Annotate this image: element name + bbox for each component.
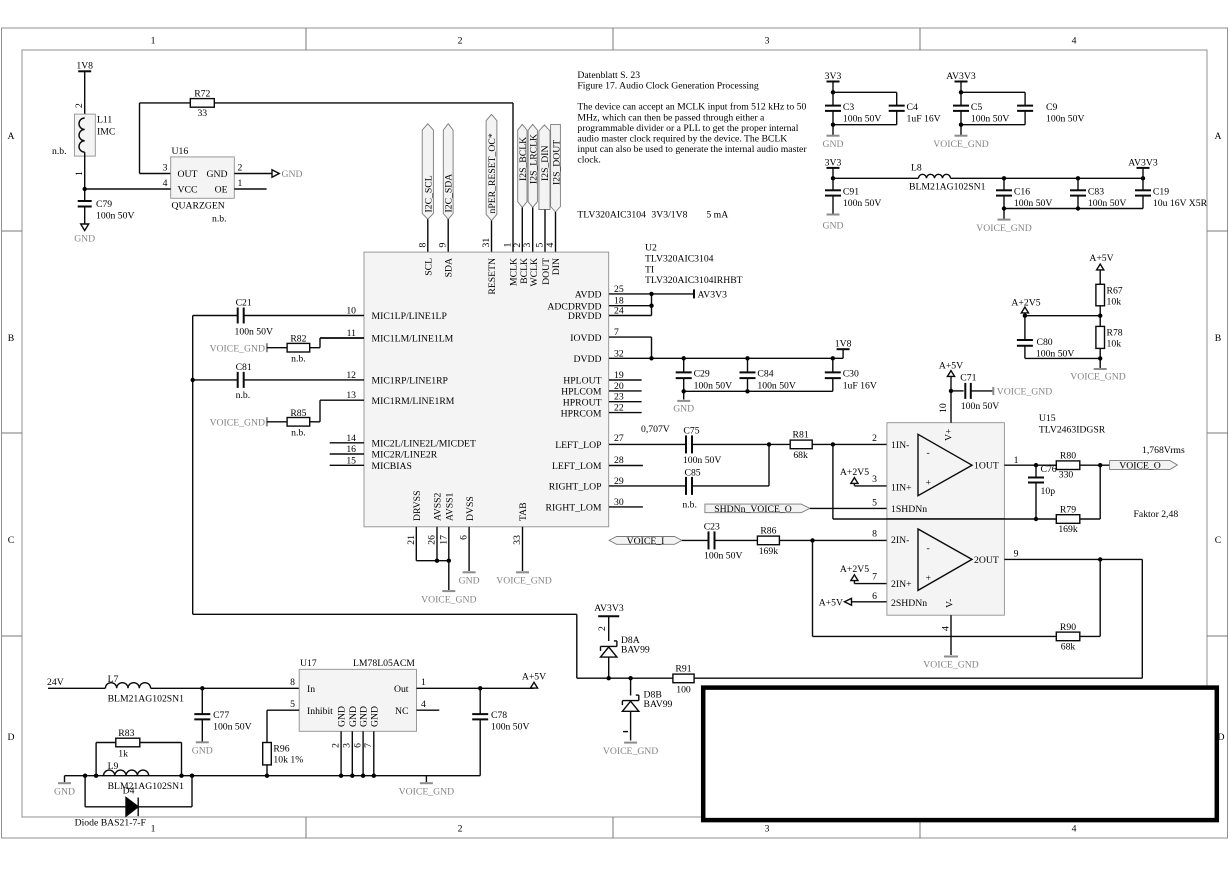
svg-text:C23: C23 [704,521,720,532]
net flag nPER_RESET_OC* [486,114,498,220]
svg-text:1V8: 1V8 [76,61,93,72]
svg-text:SHDNn_VOICE_O: SHDNn_VOICE_O [714,504,792,515]
svg-text:1k: 1k [118,749,128,760]
svg-text:1: 1 [1014,455,1019,466]
svg-text:1: 1 [151,824,156,835]
svg-text:BAV99: BAV99 [644,699,673,710]
svg-text:TAB: TAB [518,502,529,521]
wire C29 C84 C30 bottom rail [682,378,833,399]
ground VOICE_GND below D8B [603,732,658,757]
net flag I2C_SDA [443,124,454,220]
capacitor C75 100n 50V [609,426,769,466]
svg-text:169k: 169k [759,546,779,557]
net flag I2S_DIN [539,125,551,210]
wire U15A V+ pin 10 [949,389,953,423]
svg-text:17: 17 [438,535,449,545]
svg-text:100n 50V: 100n 50V [491,722,529,733]
svg-text:C: C [8,535,14,546]
svg-text:RIGHT_LOP: RIGHT_LOP [549,482,602,493]
svg-text:3V3/1V8: 3V3/1V8 [651,210,687,221]
svg-text:L9: L9 [108,761,119,772]
inductor L7 BLM21AG102SN1 [105,674,184,705]
svg-text:3: 3 [765,824,770,835]
svg-text:DVDD: DVDD [574,354,602,365]
wire 1OUT net [1004,463,1056,467]
wire I2S_DIN to U2 pin 5 [544,210,546,253]
svg-text:10p: 10p [1041,486,1056,497]
svg-text:100n 50V: 100n 50V [971,114,1009,125]
svg-text:33: 33 [512,535,523,545]
svg-text:Datenblatt S. 23: Datenblatt S. 23 [577,70,640,81]
capacitor C84 100n 50V [740,358,796,391]
svg-text:AV3V3: AV3V3 [946,71,976,82]
svg-text:TLV320AIC3104: TLV320AIC3104 [645,253,714,264]
ground GND at rail left [54,776,75,798]
wire 1V8 to L11 [84,71,86,118]
svg-text:AV3V3: AV3V3 [698,290,728,301]
svg-text:8: 8 [417,243,428,248]
U15A pin numbers [872,403,1018,508]
ground VOICE_GND at rail [399,776,454,798]
svg-text:I2C_SCL: I2C_SCL [423,175,434,212]
svg-text:GND: GND [192,746,213,757]
svg-text:C76: C76 [1041,464,1057,475]
svg-text:10k: 10k [1107,297,1122,308]
svg-text:n.b.: n.b. [52,146,67,157]
svg-text:1uF 16V: 1uF 16V [843,381,877,392]
wire MIC2 pins stubs [330,443,364,466]
svg-text:C91: C91 [843,187,859,198]
resistor R82 n.b. to VOICE_GND [210,334,364,365]
svg-text:SCL: SCL [423,258,434,276]
svg-text:I2S_LRCLK: I2S_LRCLK [528,134,539,184]
ground VOICE_GND below AVSS [421,591,476,605]
svg-text:V-: V- [945,599,956,608]
net flag I2S_BCLK [518,124,529,207]
svg-text:2: 2 [512,243,523,248]
capacitor C23 100n 50V [682,521,758,561]
svg-text:AV3V3: AV3V3 [1128,157,1158,168]
svg-text:VOICE_I: VOICE_I [627,536,665,547]
capacitor C78 100n 50V [472,688,529,775]
svg-text:C84: C84 [757,369,773,380]
svg-text:C75: C75 [683,426,699,437]
svg-text:1IN+: 1IN+ [891,482,912,493]
wire U17 Out to A+5V [417,686,535,690]
svg-text:GND: GND [207,169,228,180]
wire U15 V- pin 4 [950,615,952,655]
wire L7 to U17 In [151,686,300,690]
svg-text:input can also be used to gene: input can also be used to generate the i… [577,144,807,155]
net flag I2C_SCL [422,124,434,220]
power AV3V3 at AVDD [694,289,727,300]
ground GND below C79 [74,224,95,245]
svg-text:AVSS1: AVSS1 [445,492,456,521]
svg-text:33: 33 [197,108,207,119]
svg-text:VOICE_O: VOICE_O [1119,461,1160,472]
svg-text:U15: U15 [1039,413,1056,424]
ground GND below C3 [823,136,844,150]
svg-text:10: 10 [938,403,949,413]
power 3V3 for C91 [825,157,842,178]
svg-text:D4: D4 [123,786,135,797]
wire I2C_SCL to U2 pin 8 [427,219,429,252]
diode D8B BAV99 [622,678,672,740]
svg-text:4: 4 [163,178,168,189]
ground VOICE_GND below U15 [923,657,978,671]
svg-text:C80: C80 [1037,337,1053,348]
svg-text:HPROUT: HPROUT [563,397,602,408]
svg-text:C77: C77 [213,710,229,721]
svg-text:Inhibit: Inhibit [307,706,333,717]
svg-text:GND: GND [459,576,480,587]
ground GND below C29 [673,401,694,415]
diode D4 BAS21-7-F [75,776,192,829]
capacitor C4 1uF 16V [889,102,941,125]
svg-text:3: 3 [163,163,168,174]
wire R79 feedback line [833,518,1056,520]
svg-text:A+5V: A+5V [819,597,843,608]
svg-text:MIC1RP/LINE1RP: MIC1RP/LINE1RP [372,376,448,387]
net flag I2S_LRCLK [528,124,539,207]
svg-text:R78: R78 [1107,328,1123,339]
power A+5V at U17 Out [522,672,546,689]
wire RIGHT_LOM stub [609,506,643,508]
svg-text:LEFT_LOM: LEFT_LOM [552,461,602,472]
power AV3V3 right [1128,157,1158,168]
svg-text:C85: C85 [685,467,701,478]
U2 right pin numbers [614,284,624,508]
net flag SHDNn_VOICE_O [705,504,810,515]
wire U16 OUT to R72 riser [140,103,171,174]
wire C5 C9 bottom rail [959,111,1025,136]
svg-text:100n 50V: 100n 50V [1046,114,1084,125]
svg-text:8: 8 [872,529,877,540]
svg-text:L11: L11 [97,115,112,126]
svg-text:DRVDD: DRVDD [568,311,602,322]
svg-text:6: 6 [872,591,877,602]
svg-text:100n 50V: 100n 50V [1014,198,1052,209]
svg-text:VOICE_GND: VOICE_GND [421,595,476,606]
svg-text:MIC1RM/LINE1RM: MIC1RM/LINE1RM [372,396,455,407]
wire U16 VCC to 1V8 rail [85,188,171,190]
svg-text:1uF 16V: 1uF 16V [907,114,941,125]
svg-text:100n 50V: 100n 50V [1088,198,1126,209]
svg-text:5: 5 [290,699,295,710]
wire C80 R78 bottom rail [1025,348,1103,368]
svg-text:RESETN: RESETN [487,258,498,295]
capacitor C85 n.b. [609,467,769,510]
resistor R96 10k 1% [263,743,304,776]
svg-text:GND: GND [337,706,348,727]
label 1,768Vrms [1142,445,1185,456]
svg-text:R90: R90 [1060,622,1076,633]
svg-text:2SHDNn: 2SHDNn [891,598,927,609]
svg-text:U16: U16 [172,146,189,157]
svg-text:C9: C9 [1046,102,1057,113]
svg-text:VOICE_GND: VOICE_GND [603,746,658,757]
svg-text:100n 50V: 100n 50V [683,455,721,466]
svg-text:D: D [1218,732,1225,743]
svg-text:MCLK: MCLK [509,258,520,286]
wire L8 to AV3V3 rail with C16 C83 C19 [951,168,1146,181]
svg-text:The device can accept an MCLK: The device can accept an MCLK input from… [577,102,806,113]
power 3V3 for C3 [825,71,842,92]
op-amp U15B triangle [891,529,999,609]
resistor R85 n.b. to VOICE_GND [210,400,364,438]
svg-text:audio master clock required by: audio master clock required by the devic… [577,133,787,144]
svg-text:R82: R82 [290,334,306,345]
svg-text:1: 1 [74,171,85,176]
wire DVSS ground [468,527,470,571]
svg-text:1,768Vrms: 1,768Vrms [1142,445,1185,456]
svg-text:5: 5 [535,243,546,248]
svg-text:AVDD: AVDD [575,290,602,301]
svg-text:VOICE_GND: VOICE_GND [976,223,1031,234]
svg-text:4: 4 [545,243,556,248]
wire IOVDD to DVDD net [609,337,652,358]
svg-text:100n 50V: 100n 50V [213,722,251,733]
svg-text:I2S_BCLK: I2S_BCLK [518,137,529,181]
svg-text:C: C [1215,535,1221,546]
capacitor C9 100n 50V [1017,102,1084,125]
wire MIC bus vertical [191,316,577,679]
svg-text:B: B [1215,333,1221,344]
resistor R78 10k [1096,326,1123,349]
svg-text:GND: GND [359,706,370,727]
power A+2V5 source [1011,297,1040,315]
capacitor C71 100n 50V [951,372,999,412]
svg-text:VOICE_GND: VOICE_GND [210,344,265,355]
wire clamp rail [577,676,673,680]
wire C3 C4 bottom rail [831,111,897,136]
svg-text:330: 330 [1059,469,1074,480]
capacitor C77 100n 50V [194,688,251,732]
svg-text:169k: 169k [1058,524,1078,535]
wire U16 GND pin 2 [234,173,272,175]
IC U2 reference labels [645,243,743,287]
wire C16 C83 C19 bottom rail [1002,196,1143,220]
svg-text:In: In [307,684,315,695]
power AV3V3 above D8A [594,603,624,641]
svg-text:C83: C83 [1088,187,1104,198]
ground VOICE_GND at C71 [993,387,1052,398]
capacitor C91 100n 50V [825,176,881,209]
svg-text:5: 5 [872,498,877,509]
capacitor C80 100n 50V [1017,316,1074,360]
svg-text:C29: C29 [694,369,710,380]
wire C85 riser to C75 net [767,442,771,486]
svg-text:AVSS2: AVSS2 [433,492,444,521]
op-amp U15A triangle [891,429,999,515]
wire 3V3 to L8 [833,177,919,179]
wire AVDD bus to AV3V3 [609,292,694,316]
svg-text:1OUT: 1OUT [974,461,999,472]
svg-text:21: 21 [406,535,417,545]
svg-text:C21: C21 [236,298,252,309]
svg-text:B: B [8,333,14,344]
svg-text:A+5V: A+5V [1089,253,1113,264]
wire I2S_DOUT to U2 pin 4 [555,212,557,252]
documentation text block [577,70,807,221]
power A+5V above R67 [1089,253,1113,284]
svg-text:LEFT_LOP: LEFT_LOP [555,440,601,451]
svg-text:n.b.: n.b. [212,214,227,225]
svg-text:1SHDNn: 1SHDNn [891,504,927,515]
net flag VOICE_I [609,536,682,547]
svg-text:3: 3 [342,743,353,748]
svg-text:1V8: 1V8 [835,338,852,349]
wire SHDNn_VOICE_O to pin 5 [810,507,887,509]
svg-text:HPLCOM: HPLCOM [561,387,602,398]
regulator U17 LM78L05ACM [290,658,426,731]
svg-text:1: 1 [421,677,426,688]
svg-text:A: A [1215,131,1222,142]
svg-text:2IN-: 2IN- [891,535,909,546]
resistor R67 10k [1096,284,1123,307]
svg-text:100n 50V: 100n 50V [843,198,881,209]
svg-text:10k: 10k [1107,339,1122,350]
svg-text:2: 2 [597,626,608,631]
svg-text:3: 3 [872,474,877,485]
power A+5V above U15 [939,360,963,391]
svg-text:100n 50V: 100n 50V [694,381,732,392]
resistor R90 68k [813,559,1101,652]
svg-text:R79: R79 [1060,504,1076,515]
U2 left pin numbers [346,306,356,467]
wire U17 NC stub [417,709,440,711]
U15 reference labels [1039,413,1106,435]
svg-text:MIC2L/LINE2L/MICDET: MIC2L/LINE2L/MICDET [372,439,476,450]
wire L11 to C79 junction [83,152,87,201]
wire C79 to ground [84,207,86,225]
svg-text:R80: R80 [1060,451,1076,462]
svg-text:100n 50V: 100n 50V [96,211,134,222]
svg-text:TLV2463IDGSR: TLV2463IDGSR [1039,424,1106,435]
svg-text:100n 50V: 100n 50V [843,114,881,125]
ground GND arrow at U16 pin 2 [272,169,303,180]
svg-text:I2S_DOUT: I2S_DOUT [551,140,562,185]
svg-text:Out: Out [394,684,409,695]
capacitor C3 100n 50V [825,102,881,125]
svg-text:NC: NC [395,706,408,717]
ground GND below C77 [192,719,213,756]
svg-text:6: 6 [459,535,470,540]
svg-text:100: 100 [676,685,691,696]
svg-text:26: 26 [427,535,438,545]
svg-text:C78: C78 [491,710,507,721]
svg-text:A: A [8,131,15,142]
diode D8A BAV99 [601,635,650,678]
svg-text:Diode BAS21-7-F: Diode BAS21-7-F [75,818,147,829]
svg-text:7: 7 [363,743,374,748]
wire nPER_RESET_OC* to U2 pin 31 [491,221,493,252]
svg-text:n.b.: n.b. [291,354,306,365]
svg-text:4: 4 [941,626,952,631]
wire I2C_SDA to U2 pin 9 [447,219,449,252]
wire A+2V5 node [1023,314,1100,318]
svg-text:10k 1%: 10k 1% [273,755,303,766]
svg-text:5 mA: 5 mA [706,210,728,221]
svg-text:C5: C5 [971,102,982,113]
svg-text:TLV320AIC3104: TLV320AIC3104 [577,210,646,221]
svg-text:GND: GND [74,234,95,245]
wire AV3V3 rail C5 C9 [959,90,1025,105]
svg-text:6: 6 [353,743,364,748]
svg-text:GND: GND [823,221,844,232]
U2 top pin names [423,258,562,295]
svg-text:3V3: 3V3 [825,157,842,168]
svg-text:HPRCOM: HPRCOM [561,408,602,419]
svg-text:LM78L05ACM: LM78L05ACM [353,658,415,669]
wire bottom ground rail [65,774,481,778]
ground VOICE_GND below TAB [496,572,551,586]
svg-text:2: 2 [74,103,85,108]
svg-text:7: 7 [872,572,877,583]
svg-text:9: 9 [438,243,449,248]
svg-text:L7: L7 [108,674,119,685]
svg-text:U17: U17 [300,658,317,669]
U2 bottom pin numbers [406,535,523,545]
svg-text:GND: GND [282,169,303,180]
capacitor C21 100n 50V [193,298,364,338]
svg-text:SDA: SDA [444,258,455,277]
svg-text:MIC1LP/LINE1LP: MIC1LP/LINE1LP [372,311,447,322]
svg-text:R83: R83 [118,728,134,739]
capacitor C81 n.b. [193,362,364,401]
svg-text:MICBIAS: MICBIAS [372,461,412,472]
wire I2S_LRCLK to U2 pin 3 [532,208,534,253]
svg-text:9: 9 [1014,549,1019,560]
svg-text:BAV99: BAV99 [621,645,650,656]
svg-text:28: 28 [614,455,624,466]
svg-text:4: 4 [1072,824,1077,835]
svg-text:R91: R91 [675,664,691,675]
power A+2V5 at pin 3 [840,467,887,486]
svg-text:A+5V: A+5V [522,672,546,683]
svg-text:1: 1 [238,178,243,189]
svg-text:BLM21AG102SN1: BLM21AG102SN1 [909,182,986,193]
svg-text:clock.: clock. [577,155,600,166]
svg-text:2: 2 [458,36,463,47]
svg-text:n.b.: n.b. [682,500,697,511]
svg-text:68k: 68k [1061,641,1076,652]
ground GND below DVSS [459,572,480,586]
resistor R72 33 [140,89,215,120]
resistor R80 330 [1056,451,1109,481]
svg-text:BLM21AG102SN1: BLM21AG102SN1 [108,694,185,705]
op-amp U15 body boxes [887,423,1005,616]
label Faktor 2,48 [1134,509,1179,520]
resistor R91 100 [673,664,1142,696]
svg-text:n.b.: n.b. [236,390,251,401]
ground GND below C91 [823,196,844,232]
U2 top pin numbers [417,238,556,248]
svg-text:VOICE_GND: VOICE_GND [496,576,551,587]
svg-text:68k: 68k [793,450,808,461]
svg-text:GND: GND [823,139,844,150]
svg-text:IMC: IMC [97,127,115,138]
svg-text:I2C_SDA: I2C_SDA [444,174,455,213]
svg-text:A+2V5: A+2V5 [840,564,869,575]
svg-text:n.b.: n.b. [291,428,306,439]
svg-text:DRVSS: DRVSS [412,491,423,521]
svg-text:QUARZGEN: QUARZGEN [172,201,225,212]
capacitor C76 10p [1028,464,1057,521]
label 0,707V [641,424,670,435]
svg-text:R67: R67 [1107,286,1123,297]
svg-text:C81: C81 [236,362,252,373]
